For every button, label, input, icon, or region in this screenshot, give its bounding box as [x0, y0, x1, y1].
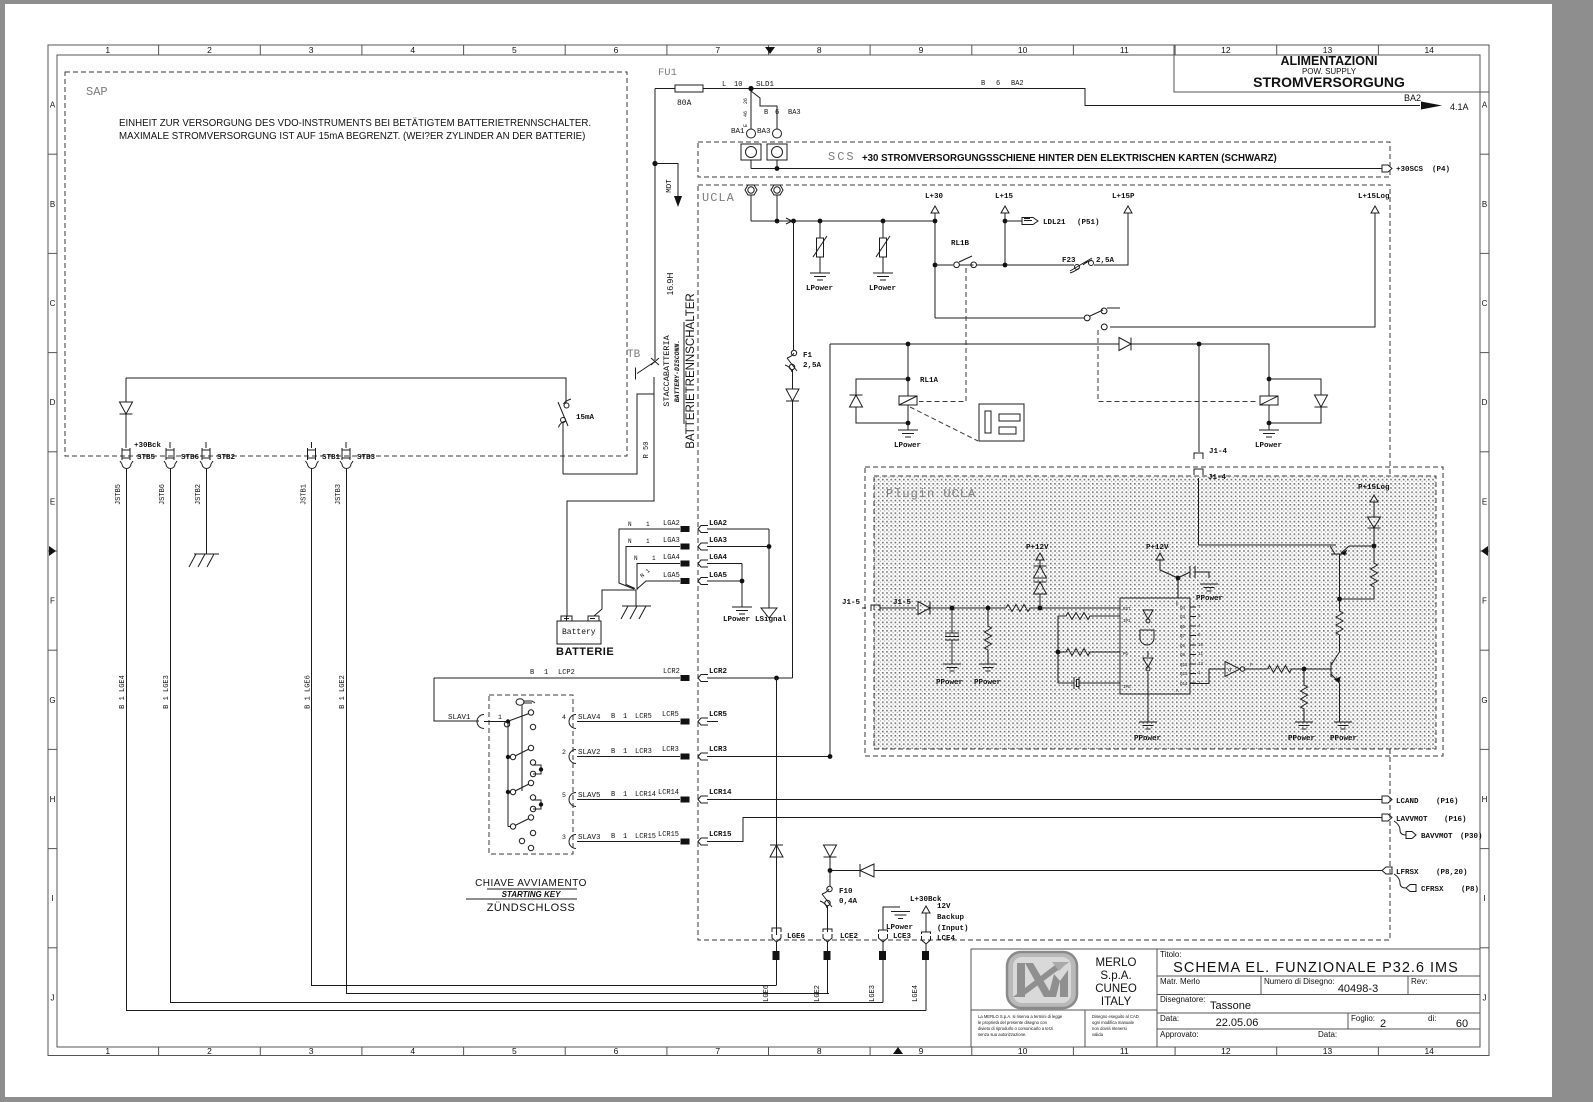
label CHIAVE AVVIAMENTO — [475, 878, 587, 914]
svg-text:d: d — [1228, 667, 1231, 674]
svg-text:CHIAVE AVVIAMENTO: CHIAVE AVVIAMENTO — [475, 878, 587, 889]
terminal BA1 — [747, 129, 756, 138]
svg-text:LCR15: LCR15 — [658, 831, 679, 839]
SCS dashed box — [698, 142, 1390, 177]
connector LGE4 — [922, 932, 931, 944]
svg-text:LPower: LPower — [869, 285, 896, 293]
svg-text:B 1 LGE4: B 1 LGE4 — [119, 675, 127, 709]
crystal Y1 — [1058, 677, 1110, 689]
svg-text:11: 11 — [1120, 45, 1129, 55]
pin J1-4 — [1194, 453, 1203, 459]
svg-text:JSTB3: JSTB3 — [335, 484, 343, 505]
frame column ticks and numbers — [105, 45, 1434, 1056]
svg-text:L+30: L+30 — [925, 193, 944, 201]
svg-text:divieto di riprodurlo o comuni: divieto di riprodurlo o comunicarlo a te… — [978, 1026, 1053, 1031]
svg-text:JSTB2: JSTB2 — [195, 484, 203, 505]
node J1-4 tap — [1197, 342, 1202, 347]
svg-text:LPower: LPower — [723, 616, 750, 624]
svg-text:1: 1 — [623, 748, 627, 756]
svg-text:1: 1 — [498, 714, 502, 721]
frame centre arrows — [765, 47, 775, 54]
svg-text:N: N — [628, 538, 632, 545]
connector LFRSX — [1382, 867, 1392, 874]
svg-text:C: C — [50, 299, 56, 308]
terminal LGE4 — [922, 951, 929, 960]
switch 15mA — [564, 403, 569, 408]
svg-text:LCR3: LCR3 — [662, 746, 679, 754]
ground PPower C2 — [1200, 584, 1218, 591]
svg-text:7: 7 — [715, 1046, 720, 1056]
key switch dashed box — [489, 695, 573, 854]
svg-text:2: 2 — [207, 1046, 212, 1056]
svg-text:B: B — [611, 833, 615, 841]
resistor R4 — [1301, 669, 1308, 722]
svg-text:0,4A: 0,4A — [839, 898, 858, 906]
connector LGE3 — [879, 930, 888, 942]
svg-text:ogni modifica manuale: ogni modifica manuale — [1092, 1020, 1135, 1025]
svg-text:5: 5 — [562, 792, 566, 799]
svg-text:G: G — [1481, 696, 1487, 705]
svg-text:LPower: LPower — [886, 924, 913, 932]
svg-text:LCR2: LCR2 — [663, 668, 680, 676]
svg-text:non dovrà ritenersi: non dovrà ritenersi — [1092, 1026, 1127, 1031]
svg-text:Backup: Backup — [937, 914, 965, 922]
svg-text:FU1: FU1 — [658, 67, 677, 79]
svg-text:8: 8 — [817, 1046, 822, 1056]
svg-text:BAVVMOT: BAVVMOT — [1421, 833, 1453, 841]
wire RL1B to L+15 to F23 — [977, 213, 1128, 265]
svg-text:I: I — [1483, 894, 1485, 903]
svg-text:LGA3: LGA3 — [663, 537, 680, 545]
dashed link coil to plug drawing — [910, 407, 978, 441]
svg-text:4: 4 — [410, 45, 415, 55]
plug drawing — [979, 404, 1024, 441]
svg-text:N: N — [634, 555, 638, 562]
svg-text:SLAV1: SLAV1 — [448, 714, 471, 722]
svg-text:RST: RST — [1123, 608, 1131, 612]
svg-text:ZÜNDSCHLOSS: ZÜNDSCHLOSS — [487, 902, 576, 914]
svg-text:STB6: STB6 — [181, 454, 200, 462]
wire Q1 collector down — [1339, 554, 1341, 599]
svg-text:J1-5: J1-5 — [842, 599, 861, 607]
svg-text:Q4: Q4 — [1180, 607, 1186, 611]
wire JSTB6 to LGE3 — [171, 468, 884, 1003]
svg-text:CUNEO: CUNEO — [1095, 983, 1137, 995]
SCS stud 1 — [741, 144, 761, 160]
title box ALIMENTAZIONI — [1174, 45, 1489, 92]
svg-text:1: 1 — [544, 669, 548, 677]
wire NO contact to L+15Log — [1110, 213, 1375, 327]
svg-text:2: 2 — [207, 45, 212, 55]
dashed link RL1B to RL1A coil — [919, 268, 966, 402]
svg-text:F23: F23 — [1062, 257, 1076, 265]
svg-text:SCS: SCS — [828, 150, 856, 164]
svg-text:LCR5: LCR5 — [709, 711, 728, 719]
svg-text:Q6: Q6 — [1180, 645, 1186, 649]
svg-text:LCR14: LCR14 — [658, 789, 679, 797]
svg-text:2: 2 — [1380, 1018, 1386, 1030]
SCS stud 2 — [767, 144, 787, 160]
diode on y344 — [1119, 338, 1131, 351]
svg-text:LPower: LPower — [806, 285, 833, 293]
svg-text:E: E — [50, 497, 55, 506]
svg-text:J1-5: J1-5 — [893, 599, 912, 607]
svg-text:PPower: PPower — [1330, 735, 1357, 743]
wire y344 main — [830, 344, 1269, 379]
svg-text:EINHEIT ZUR VERSORGUNG DES VDO: EINHEIT ZUR VERSORGUNG DES VDO-INSTRUMEN… — [119, 118, 591, 129]
svg-text:F1: F1 — [803, 352, 813, 360]
svg-text:F: F — [1482, 597, 1487, 606]
wire left spine — [654, 89, 656, 361]
svg-text:L+15P: L+15P — [1112, 193, 1135, 201]
varistor 2 — [876, 221, 890, 273]
svg-text:1: 1 — [646, 521, 650, 528]
svg-text:4: 4 — [562, 714, 566, 721]
svg-text:LCR3: LCR3 — [635, 748, 652, 756]
diode P+15Log — [1368, 502, 1381, 546]
svg-text:10: 10 — [734, 81, 742, 89]
svg-text:LGA4: LGA4 — [709, 554, 728, 562]
ground LPower LGA — [732, 607, 752, 614]
wire JSTB2 to ground — [206, 468, 208, 554]
connector LGA2 row — [707, 528, 769, 530]
ground PPower C1 — [943, 664, 961, 671]
svg-text:B: B — [981, 80, 985, 88]
svg-text:1: 1 — [105, 1046, 110, 1056]
svg-text:Q5: Q5 — [1180, 626, 1186, 630]
svg-text:12: 12 — [1221, 45, 1231, 55]
transistor Q1 — [1330, 546, 1349, 554]
svg-text:LGE6: LGE6 — [763, 985, 771, 1002]
svg-text:+30 STROMVERSORGUNGSSCHIENE HI: +30 STROMVERSORGUNGSSCHIENE HINTER DEN E… — [862, 153, 1277, 164]
svg-text:LGA5: LGA5 — [663, 572, 680, 580]
svg-text:10: 10 — [1198, 644, 1204, 648]
svg-text:LCR15: LCR15 — [635, 833, 656, 841]
transistor Q2 — [1304, 652, 1340, 683]
wire J1-4 inside plugin — [1194, 469, 1203, 475]
dashed link changeover to relay coil right — [1098, 330, 1257, 402]
svg-text:BA2: BA2 — [1404, 93, 1421, 103]
svg-text:LCR5: LCR5 — [635, 713, 652, 721]
svg-text:13: 13 — [1198, 663, 1204, 667]
svg-text:F: F — [1250, 662, 1253, 668]
changeover contact — [935, 308, 1120, 330]
svg-text:4: 4 — [410, 1046, 415, 1056]
svg-text:LCR14: LCR14 — [635, 791, 656, 799]
svg-text:P+12V: P+12V — [1146, 544, 1169, 552]
svg-text:1: 1 — [105, 45, 110, 55]
legal fine print — [978, 1014, 1139, 1037]
node SLD1 — [748, 86, 753, 91]
resistor R6 — [1336, 599, 1343, 652]
svg-text:9: 9 — [919, 45, 924, 55]
svg-text:LDL21: LDL21 — [1043, 219, 1066, 227]
svg-text:CFRSX: CFRSX — [1421, 886, 1444, 894]
svg-text:LCE2: LCE2 — [840, 933, 859, 941]
svg-text:(P16): (P16) — [1444, 816, 1467, 824]
svg-text:LCAND: LCAND — [1396, 798, 1419, 806]
svg-text:1: 1 — [623, 833, 627, 841]
svg-text:B: B — [611, 713, 615, 721]
svg-text:Data:: Data: — [1318, 1030, 1337, 1039]
relay coil right — [1267, 377, 1272, 382]
svg-text:(P16): (P16) — [1436, 798, 1459, 806]
svg-text:3: 3 — [309, 1046, 314, 1056]
svg-text:8: 8 — [817, 45, 822, 55]
resistor R5 — [1340, 546, 1378, 599]
svg-text:D: D — [1482, 398, 1488, 407]
svg-text:LPower: LPower — [1255, 442, 1282, 450]
ground PPower Q2 — [1334, 722, 1352, 729]
svg-text:+30SCS: +30SCS — [1396, 166, 1424, 174]
svg-text:Foglio:: Foglio: — [1351, 1014, 1375, 1023]
pin J1-5 — [871, 605, 880, 611]
wire JSTB5 to LGE4 — [127, 468, 927, 1011]
connector LAVVMOT — [1382, 814, 1392, 821]
svg-text:Approvato:: Approvato: — [1160, 1030, 1199, 1039]
ground PPower R1 — [979, 664, 997, 671]
svg-text:STACCABATTERIA: STACCABATTERIA — [662, 334, 672, 406]
svg-text:6: 6 — [996, 80, 1000, 88]
svg-text:9: 9 — [919, 1046, 924, 1056]
connector LCAND — [1382, 796, 1392, 803]
svg-text:LGE4: LGE4 — [912, 985, 920, 1002]
svg-text:UCLA: UCLA — [702, 191, 735, 205]
svg-text:12V: 12V — [937, 903, 951, 911]
svg-text:BA3: BA3 — [757, 128, 771, 136]
svg-text:LAVVMOT: LAVVMOT — [1396, 816, 1428, 824]
svg-text:A: A — [1482, 101, 1488, 110]
svg-text:F10: F10 — [839, 888, 853, 896]
svg-text:JSTB5: JSTB5 — [115, 484, 123, 505]
svg-text:LCR15: LCR15 — [709, 831, 732, 839]
svg-text:(P4): (P4) — [1432, 166, 1450, 174]
connector STB6 — [166, 442, 174, 460]
svg-text:1: 1 — [623, 713, 627, 721]
terminal LGE6 — [773, 951, 780, 960]
svg-text:STB2: STB2 — [217, 454, 236, 462]
SAP dashed box — [65, 72, 627, 456]
wire LGA4/LGA5 to LPower — [741, 564, 743, 608]
svg-text:Q13: Q13 — [1180, 673, 1188, 677]
ground LPower 2 — [873, 273, 893, 280]
ground LPower RL1A — [898, 423, 918, 437]
svg-text:SLAV3: SLAV3 — [578, 834, 601, 842]
UCLA bolt 1 — [745, 185, 757, 195]
svg-text:60: 60 — [1456, 1018, 1468, 1030]
svg-text:+30Bck: +30Bck — [134, 442, 162, 450]
svg-text:Matr. Merlo: Matr. Merlo — [1160, 977, 1201, 986]
svg-text:LCE4: LCE4 — [937, 935, 956, 943]
svg-text:B 1 LGE3: B 1 LGE3 — [163, 675, 171, 709]
ground LPower 1 — [810, 273, 830, 280]
svg-text:1: 1 — [623, 791, 627, 799]
IC left pins — [1110, 616, 1120, 683]
inverter G1 — [1190, 669, 1225, 684]
wire JSTB3 to LGE2 — [347, 468, 830, 994]
svg-text:1: 1 — [652, 555, 656, 562]
svg-text:A: A — [50, 101, 56, 110]
svg-text:BATTERIE: BATTERIE — [556, 646, 614, 658]
svg-text:LCP2: LCP2 — [558, 669, 575, 677]
svg-text:B: B — [611, 791, 615, 799]
svg-text:E: E — [743, 124, 749, 127]
svg-text:J: J — [1483, 993, 1487, 1002]
svg-text:B 1 LGE2: B 1 LGE2 — [339, 675, 347, 709]
svg-text:(P30): (P30) — [1460, 833, 1483, 841]
svg-text:Data:: Data: — [1160, 1014, 1179, 1023]
ground LSignal — [761, 608, 777, 618]
svg-text:LGA4: LGA4 — [663, 554, 680, 562]
svg-text:15mA: 15mA — [576, 414, 595, 422]
svg-text:26: 26 — [743, 98, 749, 104]
svg-text:D: D — [50, 398, 56, 407]
svg-text:B: B — [1482, 200, 1487, 209]
svg-text:MAXIMALE STROMVERSORGUNG IST A: MAXIMALE STROMVERSORGUNG IST AUF 15mA BE… — [119, 131, 585, 142]
svg-text:PPower: PPower — [974, 679, 1001, 687]
svg-text:22.05.06: 22.05.06 — [1216, 1017, 1259, 1029]
wire SLD1 to BA1 — [750, 91, 752, 129]
svg-text:BATTERY-DISCONN.: BATTERY-DISCONN. — [674, 340, 681, 402]
ground LPower above LGE3 — [883, 907, 910, 930]
ground PPower IC — [1139, 686, 1157, 729]
svg-text:LPower: LPower — [894, 442, 921, 450]
svg-text:R 50: R 50 — [643, 442, 651, 459]
svg-text:PPower: PPower — [1288, 735, 1315, 743]
svg-text:PPower: PPower — [1134, 735, 1161, 743]
svg-text:1: 1 — [646, 538, 650, 545]
svg-text:LCR3: LCR3 — [709, 746, 728, 754]
svg-text:L+15: L+15 — [995, 193, 1014, 201]
svg-text:LSignal: LSignal — [755, 616, 787, 624]
svg-text:STARTING KEY: STARTING KEY — [502, 890, 561, 899]
svg-text:Q14: Q14 — [1180, 683, 1188, 687]
label STACCABATTERIA — [662, 293, 697, 448]
svg-text:L+15Log: L+15Log — [1358, 193, 1390, 201]
svg-text:J: J — [51, 993, 55, 1002]
IC right pin stubs — [1190, 607, 1196, 683]
svg-text:BA2: BA2 — [1011, 80, 1024, 88]
svg-text:valida: valida — [1092, 1032, 1104, 1037]
svg-text:P+12V: P+12V — [1026, 544, 1049, 552]
UCLA top bus — [751, 195, 935, 221]
svg-text:senza sua autorizzazione.: senza sua autorizzazione. — [978, 1032, 1026, 1037]
svg-text:STROMVERSORGUNG: STROMVERSORGUNG — [1253, 74, 1405, 90]
svg-text:3: 3 — [309, 45, 314, 55]
diode pair — [1034, 566, 1047, 608]
wire R 50 from TB down to battery — [567, 377, 654, 617]
svg-text:LCR2: LCR2 — [709, 668, 728, 676]
plugin UCLA stippled box — [874, 476, 1436, 749]
svg-text:LCR14: LCR14 — [709, 789, 732, 797]
svg-text:PPower: PPower — [1196, 595, 1223, 603]
terminal LGE3 — [879, 951, 886, 960]
branch CFRSX — [1394, 874, 1406, 888]
svg-text:11: 11 — [1198, 653, 1204, 657]
svg-text:46: 46 — [743, 111, 749, 117]
svg-text:B: B — [530, 669, 534, 677]
coil RL1A — [899, 396, 917, 405]
frame row ticks and letters — [48, 101, 1489, 1003]
svg-text:Q12: Q12 — [1180, 664, 1188, 668]
svg-text:6: 6 — [614, 45, 619, 55]
svg-text:La MERLO S.p.A. si riserva a t: La MERLO S.p.A. si riserva a termini di … — [978, 1014, 1063, 1019]
diode to LFRSX — [830, 864, 1382, 877]
svg-text:SLD1: SLD1 — [756, 81, 775, 89]
svg-text:Q3: Q3 — [1180, 616, 1186, 620]
capacitor C2 — [1178, 566, 1209, 578]
svg-text:I: I — [51, 894, 53, 903]
svg-text:LGE6: LGE6 — [787, 933, 806, 941]
wire F1 branch — [793, 221, 795, 350]
svg-text:S.p.A.: S.p.A. — [1100, 970, 1131, 982]
diode under F1 — [786, 370, 799, 678]
svg-text:6: 6 — [775, 109, 779, 117]
resistor R1 — [985, 608, 992, 664]
svg-text:G: G — [49, 696, 55, 705]
svg-text:Q8: Q8 — [1180, 654, 1186, 658]
svg-text:2: 2 — [562, 749, 566, 756]
svg-text:JSTB6: JSTB6 — [159, 484, 167, 505]
resistor R2 series — [1006, 605, 1120, 612]
terminal BA3 — [773, 129, 782, 138]
svg-text:F: F — [50, 597, 55, 606]
wire MDT branch — [655, 164, 678, 197]
svg-text:PPower: PPower — [936, 679, 963, 687]
svg-text:14: 14 — [1424, 45, 1434, 55]
svg-text:(P8,20): (P8,20) — [1436, 869, 1468, 877]
svg-text:ITALY: ITALY — [1101, 996, 1132, 1008]
svg-text:Numero di Disegno:: Numero di Disegno: — [1264, 977, 1335, 986]
svg-text:Titolo:: Titolo: — [1160, 950, 1182, 959]
wire LGA2/LGA3 to LSignal — [768, 529, 770, 608]
svg-text:40498-3: 40498-3 — [1338, 983, 1378, 995]
connector LDL21 (P51) — [1005, 218, 1038, 225]
svg-text:B 1 LGE6: B 1 LGE6 — [305, 675, 313, 709]
svg-text:10: 10 — [1018, 45, 1028, 55]
svg-text:7: 7 — [715, 45, 720, 55]
svg-text:L: L — [722, 81, 726, 89]
key symbol — [516, 699, 535, 791]
UCLA dashed box — [698, 185, 1390, 940]
IC U1 box — [1120, 598, 1190, 694]
freewheel diode RL1A — [850, 379, 909, 423]
svg-text:Plugin UCLA: Plugin UCLA — [886, 487, 976, 501]
svg-text:LCE3: LCE3 — [893, 933, 912, 941]
svg-text:LGE2: LGE2 — [814, 985, 822, 1002]
svg-text:LGA5: LGA5 — [709, 572, 728, 580]
svg-text:(P8): (P8) — [1461, 886, 1479, 894]
svg-text:H: H — [1482, 795, 1488, 804]
ground on JSTB2 — [189, 554, 219, 567]
connector LGE6 at UCLA edge — [772, 928, 781, 942]
svg-text:JSTB1: JSTB1 — [301, 484, 309, 505]
switch SLAV contacts — [484, 710, 541, 851]
svg-text:2,5A: 2,5A — [803, 362, 822, 370]
wire battery plus to LGA junction — [594, 590, 636, 616]
wire JSTB1 to LGE6 — [312, 468, 777, 986]
IC internals — [1140, 610, 1154, 686]
svg-text:Disegno eseguito al CAD: Disegno eseguito al CAD — [1092, 1014, 1139, 1019]
svg-text:2,5A: 2,5A — [1096, 257, 1115, 265]
connector STB3 — [342, 442, 350, 460]
SCS bus to +30SCS — [751, 160, 1382, 169]
plugin UCLA outer dashed box — [865, 467, 1443, 756]
svg-text:4.1A: 4.1A — [1450, 102, 1469, 112]
svg-text:16.9H: 16.9H — [665, 273, 675, 296]
svg-text:P+15Log: P+15Log — [1358, 484, 1390, 492]
svg-text:SAP: SAP — [86, 85, 108, 99]
